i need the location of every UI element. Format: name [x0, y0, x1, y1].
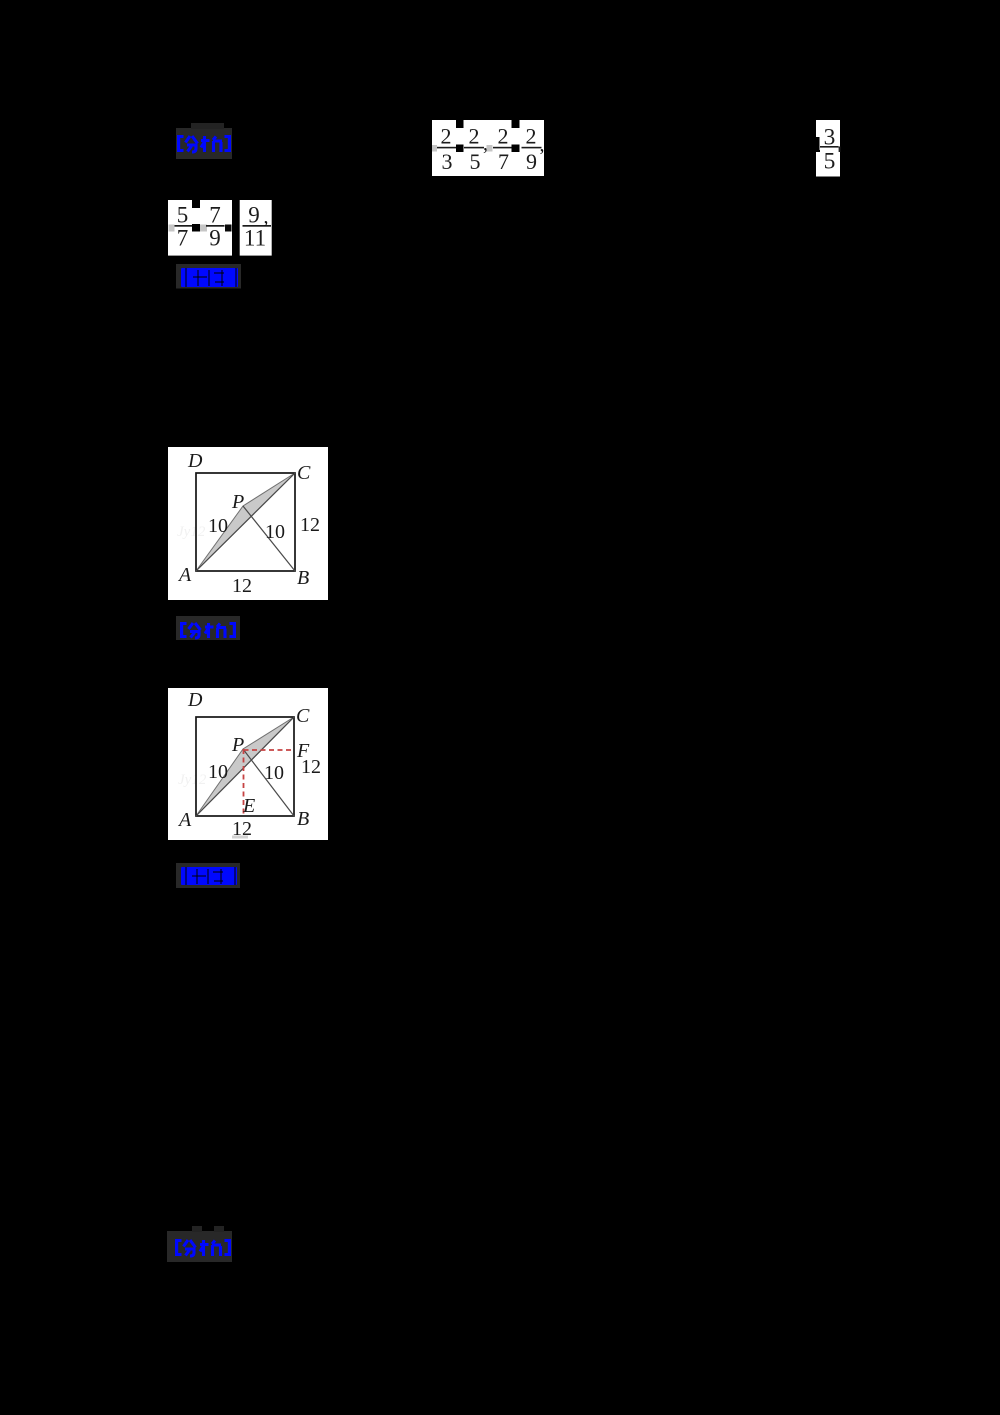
white formula panel: fractions 5/7, 7/9 [168, 200, 232, 256]
svg-text:B: B [297, 567, 309, 589]
label badge [analysis] 3 [167, 1226, 232, 1262]
svg-text:A: A [177, 564, 192, 586]
svg-text:7: 7 [177, 226, 189, 251]
svg-text:10: 10 [208, 761, 228, 783]
comma blob after 7/9 [225, 225, 232, 232]
figure 1 square [196, 473, 295, 571]
svg-text:,: , [264, 206, 269, 228]
fraction 2/9 [522, 124, 542, 175]
svg-text:3: 3 [442, 149, 453, 174]
fraction 7/9 [206, 203, 225, 251]
svg-text:5: 5 [824, 149, 836, 175]
figure 1 shaded sliver APC [196, 473, 295, 571]
svg-text:2: 2 [526, 124, 537, 149]
svg-text:C: C [297, 462, 311, 484]
comma mark 2 [483, 133, 493, 155]
svg-text:D: D [187, 450, 203, 472]
label badge [answer] 2 [176, 863, 240, 888]
comma square mark row2 [169, 200, 208, 232]
svg-text:5: 5 [470, 149, 481, 174]
figure 2 white panel [168, 688, 328, 840]
svg-text:9: 9 [209, 226, 221, 251]
fraction 2/7 [493, 124, 513, 175]
svg-text:10: 10 [264, 762, 284, 784]
figure 2 measure labels [208, 756, 321, 840]
svg-text:E: E [242, 795, 255, 817]
fraction 2/3 [436, 124, 457, 175]
svg-text:5: 5 [177, 203, 189, 228]
figure 2 red dashed PF [244, 749, 295, 751]
svg-text:P: P [231, 491, 244, 513]
white formula panel: fraction 9/11 [240, 200, 272, 256]
label badge [answer] 1 [176, 264, 241, 289]
figure 1 diagonal AC [196, 473, 295, 571]
label badge [analysis] 2 [176, 616, 240, 640]
svg-text:9: 9 [526, 149, 537, 174]
svg-text:C: C [296, 705, 310, 727]
figure 2 vertex labels [177, 689, 310, 831]
fraction 5/7 [170, 203, 196, 251]
svg-text:Jy12: Jy12 [178, 772, 207, 788]
svg-text:9: 9 [248, 203, 260, 228]
svg-text:,: , [483, 133, 488, 155]
figure 2 gray mark under 12 [232, 836, 248, 839]
comma square mark 1 [432, 120, 464, 152]
svg-text:11: 11 [244, 226, 266, 251]
svg-text:2: 2 [469, 124, 480, 149]
mixed number 1 3/5 white panel [813, 120, 840, 177]
figure 2 segment PB [243, 749, 294, 816]
geometry figure 2 (square ABCD with P, E, F) [168, 688, 328, 840]
figure 1 measure labels [208, 514, 320, 597]
geometry figure 1 (square ABCD with P) [168, 447, 328, 600]
svg-text:A: A [177, 809, 192, 831]
svg-text:,: , [540, 134, 545, 156]
svg-text:10: 10 [265, 521, 285, 543]
label badge [analysis] 1 [176, 123, 232, 159]
svg-text:P: P [231, 734, 244, 756]
comma square mark 3 [512, 120, 520, 152]
svg-text:2: 2 [498, 124, 509, 149]
fraction 3/5 [820, 125, 839, 175]
figure 1 vertex labels [177, 450, 311, 589]
figure 1 segment PB [243, 506, 295, 571]
figure 2 diagonal AC [196, 717, 294, 816]
figure 1 white panel [168, 447, 328, 600]
fraction 9/11 [243, 203, 272, 251]
figure 2 square [196, 717, 294, 816]
figure 2 shaded sliver APC [196, 717, 294, 816]
svg-text:2: 2 [441, 124, 452, 149]
svg-text:10: 10 [208, 515, 228, 537]
svg-text:12: 12 [232, 575, 252, 597]
fraction 2/5 [464, 124, 484, 175]
svg-text:12: 12 [300, 514, 320, 536]
svg-text:B: B [297, 808, 309, 830]
figure 2 red dashed PE [243, 749, 245, 816]
svg-text:12: 12 [301, 756, 321, 778]
svg-text:7: 7 [498, 149, 509, 174]
svg-text:D: D [187, 689, 203, 711]
trailing comma at mixed number edge [839, 147, 841, 153]
svg-text:7: 7 [209, 203, 221, 228]
svg-text:Jy12: Jy12 [177, 524, 206, 540]
white formula panel: fractions 2/3, 2/5, 2/7, 2/9 [432, 120, 544, 176]
